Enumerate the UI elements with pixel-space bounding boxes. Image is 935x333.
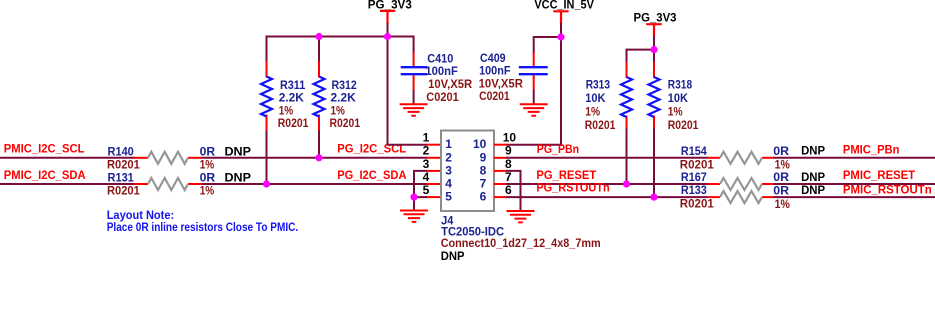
wire pin 3 / pin 5 to ground xyxy=(414,170,441,211)
junction VCC_IN_5V xyxy=(557,33,564,40)
svg-text:4: 4 xyxy=(423,170,430,184)
node PG_I2C_SDA xyxy=(337,168,407,182)
ground (pin 8) xyxy=(507,211,535,222)
junction R312 bottom on PG_I2C_SCL xyxy=(315,154,322,161)
svg-text:PG_PBn: PG_PBn xyxy=(537,142,579,156)
wire R313 branch (rail to PG_RESET) xyxy=(626,49,628,184)
junction R312 top xyxy=(315,33,322,40)
svg-text:0R: 0R xyxy=(200,144,216,158)
junction pins 3,5 ground xyxy=(410,194,417,201)
resistor R312 xyxy=(314,77,361,130)
J4 pin numbers outside right xyxy=(503,131,517,197)
junction R318 top xyxy=(650,46,657,53)
resistor R154 xyxy=(680,144,825,172)
svg-text:10K: 10K xyxy=(668,91,689,105)
connector J4 body xyxy=(441,131,494,212)
svg-text:PMIC_RSTOUTn: PMIC_RSTOUTn xyxy=(843,183,932,197)
svg-text:5: 5 xyxy=(445,190,452,204)
junction R318 bottom on PG_RSTOUTn xyxy=(650,194,657,201)
wire pin 6 PG_RSTOUTn row xyxy=(494,196,935,198)
resistor R313 xyxy=(585,77,632,132)
wire pin 1 branch xyxy=(388,36,442,145)
svg-text:PG_RSTOUTn: PG_RSTOUTn xyxy=(536,180,609,194)
svg-text:R0201: R0201 xyxy=(278,116,309,130)
svg-text:2: 2 xyxy=(423,144,430,158)
node PMIC_I2C_SCL xyxy=(4,141,85,155)
svg-text:DNP: DNP xyxy=(801,144,825,158)
svg-text:0R: 0R xyxy=(773,144,789,158)
svg-text:8: 8 xyxy=(480,163,487,177)
ground (C410) xyxy=(400,104,428,115)
node PG_PBn xyxy=(537,142,579,156)
wire pin 9 PG_PBn row xyxy=(494,157,935,159)
svg-text:VCC_IN_5V: VCC_IN_5V xyxy=(534,0,594,12)
wire VCC_IN_5V to pin 10 xyxy=(506,36,561,145)
svg-text:DNP: DNP xyxy=(441,249,465,263)
svg-text:R154: R154 xyxy=(681,144,707,158)
J4 pin numbers outside left xyxy=(423,131,430,197)
svg-text:1%: 1% xyxy=(775,197,790,211)
svg-text:100nF: 100nF xyxy=(425,64,457,78)
wire pin 8 to ground xyxy=(494,171,521,211)
svg-text:7: 7 xyxy=(505,170,512,184)
svg-text:4: 4 xyxy=(445,177,452,191)
svg-text:0R: 0R xyxy=(773,170,789,184)
wire R311 branch (rail to PMIC_I2C_SDA) xyxy=(266,36,268,185)
J4 pin numbers inside right xyxy=(473,137,487,203)
svg-text:3: 3 xyxy=(445,163,452,177)
wire R318 branch (rail to PG_RSTOUTn) xyxy=(653,49,655,198)
ground (C409) xyxy=(520,104,548,115)
svg-text:1: 1 xyxy=(423,131,430,145)
power symbol PG_3V3 (right) xyxy=(634,10,677,37)
wire VCC_IN_5V node xyxy=(534,23,561,37)
svg-text:1%: 1% xyxy=(585,105,600,119)
svg-text:0R: 0R xyxy=(200,171,216,185)
connector J4 labels xyxy=(441,213,601,263)
svg-text:PG_I2C_SDA: PG_I2C_SDA xyxy=(337,168,407,182)
svg-text:Connect10_1d27_12_4x8_7mm: Connect10_1d27_12_4x8_7mm xyxy=(441,236,601,250)
resistor R311 xyxy=(261,77,309,130)
wire PG_3V3 rail (right) xyxy=(627,36,655,50)
node PG_I2C_SCL xyxy=(337,141,406,155)
node PMIC_RESET xyxy=(843,168,916,182)
svg-text:5: 5 xyxy=(423,183,430,197)
ground (pins 3,5) xyxy=(400,211,428,222)
svg-text:R0201: R0201 xyxy=(680,197,714,211)
wire PMIC_I2C_SDA row xyxy=(0,183,441,185)
svg-text:6: 6 xyxy=(505,183,512,197)
svg-text:PG_3V3: PG_3V3 xyxy=(634,10,677,24)
svg-text:1%: 1% xyxy=(200,184,215,198)
svg-text:0R: 0R xyxy=(773,183,789,197)
resistor R167 xyxy=(681,170,825,190)
J4 pin numbers inside left xyxy=(445,137,452,203)
wire pin 7 PG_RESET row xyxy=(494,183,935,185)
svg-text:R131: R131 xyxy=(108,171,135,185)
svg-text:R0201: R0201 xyxy=(107,184,140,198)
svg-text:6: 6 xyxy=(480,190,487,204)
resistor R318 xyxy=(649,77,699,132)
svg-text:9: 9 xyxy=(480,150,487,164)
svg-text:PMIC_RESET: PMIC_RESET xyxy=(843,168,916,182)
svg-text:R0201: R0201 xyxy=(668,118,699,132)
svg-text:R133: R133 xyxy=(681,183,707,197)
svg-text:R0201: R0201 xyxy=(107,157,140,171)
svg-text:R313: R313 xyxy=(586,78,611,92)
svg-text:PG_I2C_SCL: PG_I2C_SCL xyxy=(337,141,406,155)
svg-text:DNP: DNP xyxy=(801,183,825,197)
svg-text:1%: 1% xyxy=(200,157,215,171)
svg-text:R0201: R0201 xyxy=(330,116,361,130)
junction R311 bottom on PMIC_I2C_SDA xyxy=(263,180,270,187)
svg-text:1%: 1% xyxy=(668,105,683,119)
svg-text:C0201: C0201 xyxy=(479,89,510,103)
svg-text:DNP: DNP xyxy=(225,171,252,185)
resistor R131 xyxy=(107,171,251,198)
svg-text:R318: R318 xyxy=(668,78,693,92)
wire PG_3V3 rail (top left) xyxy=(267,23,414,37)
node PMIC_PBn xyxy=(843,143,900,157)
wire pin 10 stub xyxy=(494,144,507,146)
svg-text:10: 10 xyxy=(473,137,487,151)
wire PMIC_I2C_SCL row xyxy=(0,157,441,159)
svg-text:9: 9 xyxy=(505,144,512,158)
junction PG_3V3 / pin 1 xyxy=(384,33,391,40)
capacitor C410 xyxy=(401,36,473,105)
node PMIC_RSTOUTn xyxy=(843,183,932,197)
note layout text xyxy=(107,208,299,234)
svg-text:10K: 10K xyxy=(585,91,606,105)
svg-text:10: 10 xyxy=(503,131,517,145)
node PMIC_I2C_SDA xyxy=(4,168,86,182)
svg-text:DNP: DNP xyxy=(225,144,252,158)
resistor R133 xyxy=(680,183,825,211)
wire R312 branch (rail to PG_I2C_SCL) xyxy=(318,37,320,158)
svg-text:C0201: C0201 xyxy=(426,90,459,104)
junction R313 bottom on PG_RESET xyxy=(623,180,630,187)
svg-text:PMIC_I2C_SDA: PMIC_I2C_SDA xyxy=(4,168,86,182)
node PG_RSTOUTn xyxy=(536,180,609,194)
resistor R140 xyxy=(107,144,251,171)
svg-text:3: 3 xyxy=(423,157,430,171)
svg-text:R0201: R0201 xyxy=(585,118,616,132)
power symbol VCC_IN_5V xyxy=(534,0,594,24)
power symbol PG_3V3 (top left) xyxy=(368,0,412,24)
svg-text:2: 2 xyxy=(445,150,452,164)
svg-text:7: 7 xyxy=(480,177,487,191)
svg-text:PMIC_I2C_SCL: PMIC_I2C_SCL xyxy=(4,141,85,155)
svg-text:DNP: DNP xyxy=(801,170,825,184)
svg-text:R140: R140 xyxy=(108,144,135,158)
node PG_RESET xyxy=(536,168,596,182)
svg-text:1: 1 xyxy=(445,137,452,151)
capacitor C409 xyxy=(479,36,548,104)
svg-text:R167: R167 xyxy=(681,170,707,184)
svg-text:PMIC_PBn: PMIC_PBn xyxy=(843,143,900,157)
svg-text:8: 8 xyxy=(505,157,512,171)
svg-text:Place 0R inline resistors Clos: Place 0R inline resistors Close To PMIC. xyxy=(107,220,299,234)
